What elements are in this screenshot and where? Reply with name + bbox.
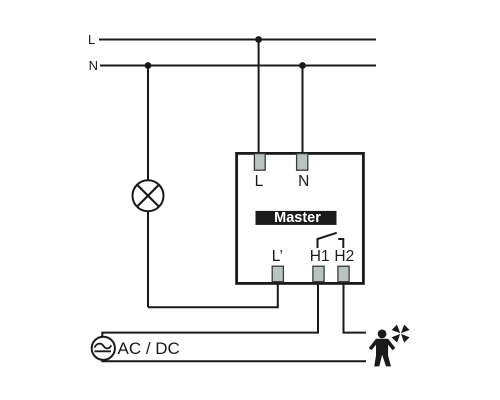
svg-text:Master: Master xyxy=(274,210,321,226)
svg-text:N: N xyxy=(89,58,98,73)
svg-text:H2: H2 xyxy=(334,248,354,265)
svg-text:L: L xyxy=(88,32,95,47)
svg-text:AC / DC: AC / DC xyxy=(118,339,180,358)
svg-text:N: N xyxy=(298,173,309,190)
svg-text:L: L xyxy=(255,173,264,190)
svg-text:L’: L’ xyxy=(272,248,283,265)
svg-text:H1: H1 xyxy=(310,248,330,265)
